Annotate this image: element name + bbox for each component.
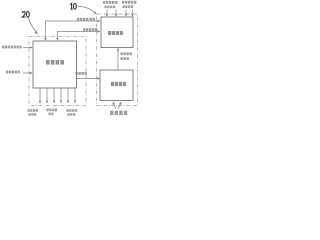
- output arrows bottom of power box: [40, 88, 75, 102]
- power module box (left): [33, 41, 77, 88]
- fork label: [110, 111, 127, 115]
- label 20: [22, 12, 29, 18]
- background: [0, 0, 141, 120]
- wire W3 label: [76, 72, 87, 75]
- top label group 2 row2: [123, 5, 134, 8]
- wire W3 left box to driver box: [77, 78, 99, 80]
- dash-dot module boundary 20: [29, 36, 86, 105]
- driver box text: [111, 82, 126, 86]
- external input arrow I2: [23, 72, 31, 74]
- output label cluster C2 row1: [47, 109, 58, 112]
- top label group 2 row1: [122, 1, 136, 4]
- output label cluster C3 row2: [68, 113, 76, 116]
- dash-dot module boundary 10: [97, 14, 138, 106]
- wire W1 label: [77, 18, 95, 21]
- controller box text: [108, 31, 123, 35]
- wire W1 left box top to controller: [46, 21, 100, 40]
- wire W4 label row2: [121, 57, 129, 60]
- label 10: [70, 3, 76, 9]
- controller box (top right): [101, 17, 133, 48]
- input I1 label: [2, 46, 22, 49]
- output label cluster C3 row1: [67, 109, 78, 112]
- wire W4 label row1: [121, 52, 132, 55]
- wire W2 left box top to controller: [58, 32, 100, 40]
- output label cluster C2 row2: [49, 113, 54, 116]
- output label cluster C1 row1: [28, 109, 39, 112]
- leader line for 10: [78, 7, 95, 14]
- top input arrows into controller: [107, 10, 133, 16]
- leader line for 20: [29, 18, 37, 33]
- fork arrows below driver box: [113, 103, 115, 109]
- output label cluster C1 row2: [29, 113, 37, 116]
- power module box text: [46, 60, 64, 65]
- input I2 label: [6, 71, 20, 74]
- external input arrow I1: [23, 47, 31, 49]
- driver box (bottom right): [100, 70, 133, 101]
- wire W4 driver box to controller: [117, 49, 119, 70]
- wire W2 label: [83, 28, 97, 31]
- top label group 1 row2: [105, 6, 116, 9]
- top label group 1 row1: [103, 1, 117, 4]
